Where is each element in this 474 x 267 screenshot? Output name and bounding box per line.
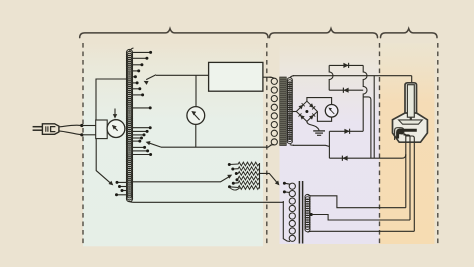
rectifier branch D3 <box>329 130 363 132</box>
single tap <box>133 107 150 109</box>
wire terminal to variac <box>82 125 96 127</box>
autotransformer winding <box>126 48 133 202</box>
boundary dashed line (tube section right) <box>437 43 439 244</box>
wire autotransformer bottom to filament primary <box>134 201 284 202</box>
rectifier left riser with crossover hop <box>329 65 333 90</box>
autotransformer tap bank (middle) <box>133 126 152 156</box>
variac dial <box>107 120 125 138</box>
tube filament lead 2 <box>409 141 411 220</box>
brace over control console <box>80 29 268 38</box>
wire timer to HV primary <box>263 76 272 78</box>
filament secondary top wire <box>308 195 406 208</box>
filament transformer core <box>298 181 300 244</box>
wire selector to timer <box>156 74 209 76</box>
tube filament lead 1 <box>405 141 407 208</box>
rectifier right riser with two crossover hops <box>363 65 367 131</box>
timer / control box <box>209 62 263 91</box>
boundary dashed line (HV / tube section) <box>379 43 381 244</box>
HV transformer secondary winding <box>287 76 294 146</box>
filament rheostat (resistor bank) <box>228 162 260 190</box>
tube filament lead 3 <box>413 141 415 231</box>
mA bridge rectifier <box>296 101 317 121</box>
filament primary tap 2 <box>285 191 290 194</box>
boundary dashed line (console left) <box>82 43 84 246</box>
HV secondary top wire to rectifier <box>293 75 412 77</box>
anode rod <box>407 85 414 118</box>
autotransformer filament tap bank (left) <box>115 181 126 196</box>
return wire to HV primary bottom <box>161 145 272 147</box>
filament transformer secondary <box>305 194 310 231</box>
wire rheostat to filament primary selector <box>260 173 278 183</box>
input terminal node (top) <box>80 124 83 127</box>
wire bridge to mA meter <box>307 98 332 105</box>
secondary centre-tap stub <box>293 111 297 113</box>
ground wire <box>307 121 319 130</box>
HV transformer core <box>280 77 287 146</box>
mains plug <box>33 124 59 135</box>
X-ray tube stem <box>405 83 417 118</box>
anode supply wire <box>411 76 413 84</box>
brace over X-ray tube <box>381 29 438 38</box>
rectifier left riser (bottom) <box>328 131 330 158</box>
brace over HV generator <box>270 29 378 38</box>
X-ray tube bulb <box>393 113 428 142</box>
wire meter to return <box>195 124 197 147</box>
anode target plate <box>399 120 423 124</box>
X-ray tube panel (orange) <box>380 43 435 244</box>
cathode assembly <box>395 128 417 143</box>
rectifier branch D4 (cathode wire) <box>329 154 405 158</box>
filament rheostat feed wire <box>131 176 230 181</box>
autotransformer kV tap bank (top) <box>133 51 152 97</box>
filament primary tap 1 <box>285 182 290 185</box>
wire variac top to autotransformer <box>96 79 126 120</box>
control-console panel (green) <box>83 43 263 246</box>
mains cord wires <box>59 125 81 127</box>
HV generator panel (purple) <box>280 43 380 244</box>
kV selector arm <box>146 75 156 80</box>
kV meter <box>187 107 205 125</box>
wire terminal to variac (lower) <box>82 134 96 136</box>
boundary dashed line (console / HV section) <box>266 43 268 246</box>
return selector arm <box>148 143 161 147</box>
filament secondary bottom wire <box>308 231 415 232</box>
wire to kV meter <box>195 75 197 106</box>
filament transformer primary <box>289 183 295 241</box>
wire variac bottom to filament tap selector <box>96 139 111 184</box>
mA meter <box>325 105 338 118</box>
ground <box>313 131 325 135</box>
variac body <box>96 120 108 139</box>
wire mA meter return <box>317 112 331 122</box>
adjustment arrow above variac <box>114 109 116 116</box>
rectifier branch D1 (top) <box>329 64 363 66</box>
rectifier vertical bus 2 <box>373 76 375 159</box>
HV transformer primary winding <box>270 77 278 145</box>
input terminal node (bottom) <box>80 133 83 136</box>
tee to vertical bus 1 <box>363 97 371 158</box>
filament primary bottom lead <box>283 202 290 241</box>
rectifier branch D2 <box>329 89 363 91</box>
HV secondary bottom wire to rectifier <box>293 145 329 146</box>
filament secondary centre tap <box>310 213 313 216</box>
